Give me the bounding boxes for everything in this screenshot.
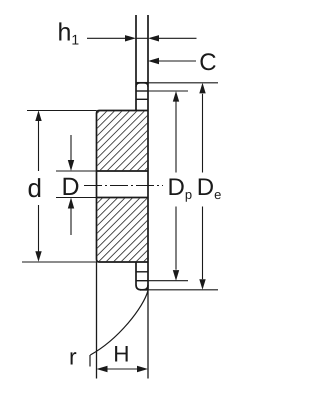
h1 dimension line left — [87, 37, 126, 39]
d arrow down — [35, 251, 41, 262]
fillet curve r — [90, 291, 148, 355]
H dimension line — [107, 368, 138, 370]
De arrow down — [199, 279, 205, 290]
pitch line top (Dp level) — [136, 90, 149, 92]
tooth tip edge top (De level) — [136, 82, 149, 84]
hub bottom extension line (d) — [22, 261, 97, 263]
De dimension line lower — [202, 207, 204, 280]
root line top — [136, 98, 148, 100]
C dimension line — [159, 60, 196, 62]
h1 dimension line right — [159, 37, 197, 39]
hub outline (left face, rounded corners) — [97, 111, 149, 263]
D arrow up — [68, 198, 74, 209]
hub section hatch lower — [97, 198, 147, 261]
C arrow left-pointing — [148, 58, 159, 64]
Dp dimension line lower — [175, 207, 177, 270]
fillet curve end stub — [89, 355, 91, 367]
D dimension line upper — [70, 135, 72, 161]
Dp arrow down — [173, 270, 179, 281]
H arrow right-pointing — [137, 366, 148, 372]
pitch line bottom (Dp level) — [136, 280, 149, 282]
De dimension line upper — [202, 94, 204, 173]
svg-text:H: H — [113, 341, 129, 366]
h1 dimension line across plate — [136, 37, 148, 39]
bottom tooth left edge with fillet — [136, 262, 141, 290]
root line bottom — [136, 271, 148, 273]
h1 arrow left-pointing — [148, 35, 159, 41]
bore top extension line (D) — [56, 170, 97, 172]
De arrow up — [199, 83, 205, 94]
svg-text:C: C — [199, 49, 216, 76]
bore bottom extension line (D) — [56, 197, 97, 199]
h1 arrow right-pointing — [125, 35, 136, 41]
D arrow down — [68, 160, 74, 171]
plate left edge (upper) — [135, 15, 137, 111]
svg-text:De: De — [197, 174, 222, 202]
tooth top-right fillet — [144, 83, 148, 87]
hub section hatch upper — [97, 111, 147, 170]
d dimension line lower — [38, 205, 40, 253]
plate right edge extension below — [147, 290, 149, 379]
plate right edge — [147, 15, 149, 290]
svg-text:d: d — [28, 173, 42, 203]
svg-text:Dp: Dp — [168, 174, 193, 202]
Dp arrow up — [173, 91, 179, 102]
D dimension line lower — [70, 208, 72, 235]
bottom tooth right fillet — [143, 285, 148, 290]
bore bottom edge — [97, 197, 149, 199]
svg-text:D: D — [62, 173, 80, 201]
hub top extension line (d) — [27, 110, 97, 112]
hub left edge extension below — [96, 262, 98, 379]
tooth tip edge bottom (De level) — [140, 289, 149, 291]
centre line (dash-dot) — [84, 185, 163, 187]
svg-text:h1: h1 — [58, 19, 80, 48]
tooth top-left fillet — [136, 83, 141, 87]
H arrow left-pointing — [97, 366, 108, 372]
d dimension line upper — [38, 120, 40, 171]
Dp dimension line upper — [175, 102, 177, 173]
bore top edge — [97, 170, 149, 172]
svg-text:r: r — [69, 344, 77, 370]
d arrow up — [35, 110, 41, 121]
